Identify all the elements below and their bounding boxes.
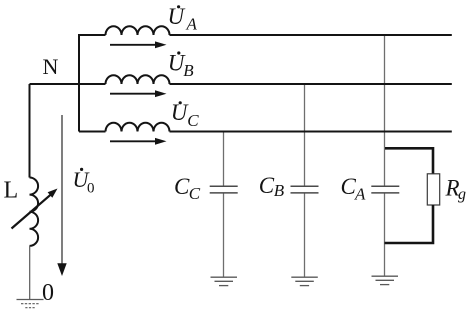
arrow: U_0 voltage arrow [57,115,66,276]
wire: R_g branch top (thick) [385,148,433,174]
svg-text:C: C [174,174,190,199]
svg-text:C: C [189,184,201,203]
wire: C_B capacitor top lead from phase B [304,84,306,186]
capacitor C_A plates [371,186,399,193]
svg-text:0: 0 [87,181,95,197]
svg-text:A: A [186,15,198,34]
wire: neutral down-lead to arc-suppression coil [29,84,31,178]
arrow: phase A current arrow [110,41,167,48]
ground at node 0 [17,300,44,308]
wire: C_A capacitor bottom lead to ground [384,193,386,276]
inductor: phase A winding [106,26,170,35]
wire: phase B line to right edge [170,83,452,85]
label U_A [168,4,198,34]
svg-text:0: 0 [42,280,54,306]
wire: phase A line to right edge [170,34,452,36]
wire: C_C capacitor bottom lead to ground [223,193,225,277]
label U_C [171,100,200,130]
wire: lead from L to ground [29,246,31,300]
ground under C_C [211,277,238,285]
svg-text:C: C [187,111,199,130]
inductor L (arc suppression coil) [30,177,39,245]
ground under C_B [291,277,318,285]
svg-text:L: L [4,178,19,204]
svg-text:g: g [458,186,466,203]
capacitor C_B plates [291,186,319,193]
label C_A [341,174,367,204]
resistor R_g [427,174,439,205]
label U_0 [73,167,95,197]
ground under C_A [372,276,399,284]
capacitor C_C plates [210,186,238,193]
wire: C_C capacitor top lead from phase C [223,132,225,187]
arrow: phase C current arrow [110,138,167,145]
wire: C_A capacitor top lead from phase A [384,35,386,186]
arrow: variable-inductance diagonal arrow through L [12,189,58,229]
svg-text:B: B [274,181,285,200]
svg-text:C: C [259,173,275,198]
arrow: phase B current arrow [110,90,167,97]
label R_g [445,176,467,204]
wire: neutral bus vertical connecting phases A,B,C [78,34,80,132]
label C_C [174,174,201,203]
label U_B [168,51,194,81]
wire: phase C line to right edge [170,131,452,133]
svg-text:N: N [43,54,59,79]
wire: phase C left stub [79,131,106,133]
svg-text:B: B [183,61,194,80]
wire: phase B line (left extension through N junction) [30,83,106,85]
label C_B [259,173,285,200]
wire: phase A left stub [79,34,106,36]
inductor: phase C winding [106,123,170,132]
svg-text:A: A [354,185,366,204]
svg-text:U: U [168,4,186,29]
wire: R_g branch bottom (thick) [385,205,434,243]
wire: C_B capacitor bottom lead to ground [304,193,306,277]
inductor: phase B winding [106,75,170,84]
